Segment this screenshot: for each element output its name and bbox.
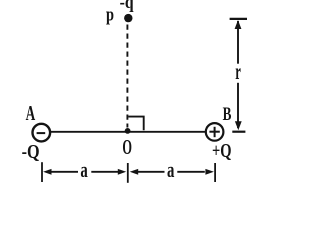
svg-text:O: O xyxy=(122,135,132,159)
dimension a left: left arrow xyxy=(43,169,51,175)
dimension r: up arrow xyxy=(235,20,242,29)
svg-text:r: r xyxy=(235,59,241,84)
dimension a left: line segment xyxy=(91,171,118,173)
dimension r: lower line xyxy=(237,83,239,128)
dimension r: upper line xyxy=(237,21,239,64)
dimension r: down arrow xyxy=(235,121,242,130)
svg-text:B: B xyxy=(223,104,232,125)
dimension a right: right arrow xyxy=(205,169,214,175)
dimension a right: left arrow xyxy=(130,169,139,175)
point P dot xyxy=(124,14,132,22)
dimension a left: line segment xyxy=(51,171,79,173)
right-angle mark at O xyxy=(128,117,144,131)
dimension a right: line segment xyxy=(137,171,165,173)
svg-text:a: a xyxy=(167,157,174,182)
dimension r: top cap xyxy=(230,18,247,20)
dimension a right: line segment xyxy=(177,171,205,173)
dimension a left: right arrow xyxy=(118,169,126,175)
svg-text:+Q: +Q xyxy=(212,140,232,162)
svg-text:A: A xyxy=(26,101,36,125)
svg-text:a: a xyxy=(80,157,87,182)
charge A circle with minus xyxy=(33,124,51,142)
dimension r: bottom cap xyxy=(232,131,245,133)
svg-text:-q: -q xyxy=(120,0,134,13)
svg-text:-Q: -Q xyxy=(22,141,40,163)
charge B circle with plus xyxy=(206,123,224,141)
svg-text:p: p xyxy=(106,4,114,25)
dashed line P to O xyxy=(126,25,128,128)
dimension a left: tick xyxy=(41,162,43,182)
node O dot xyxy=(125,128,131,134)
dimension a right: tick xyxy=(214,163,216,182)
wire main line A to B xyxy=(50,131,206,133)
dimension mid tick xyxy=(127,163,129,183)
